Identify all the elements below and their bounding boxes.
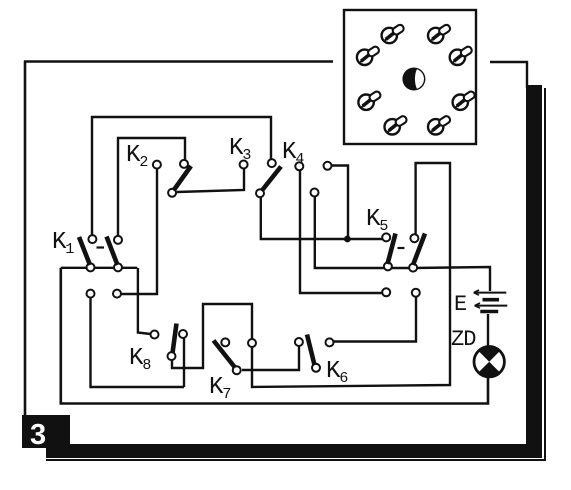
K5 contacts top row: [382, 233, 390, 241]
wire K8 right contact down to low rail: [183, 338, 185, 387]
wire K2 left contact down to lower contact row: [121, 169, 157, 294]
K1 link dash: [97, 246, 105, 248]
K1 contacts bottom row: [87, 290, 95, 298]
wire K7 pivot right then up to K6 left contact: [242, 346, 299, 370]
lamp ZD: [474, 346, 504, 377]
wire K1 top-right up and over to K2 right contact: [118, 138, 185, 236]
K5 contacts bottom row: [382, 288, 390, 296]
key 4 mid-right: [450, 45, 473, 65]
K2 right contact: [180, 160, 188, 168]
K1 contacts top row: [88, 235, 96, 243]
switch K2: [126, 142, 191, 197]
wire K1 top-left up and over to K4 left contact: [92, 117, 271, 235]
K2 pivot: [168, 189, 176, 197]
frame shadow thin outline bottom: [46, 459, 546, 461]
key 6 low-right: [453, 90, 476, 110]
frame top edge / wire to panel left terminal: [24, 60, 333, 63]
wire K1 right pivot corner down to K8 left contact: [138, 268, 151, 334]
K4 lower contact: [311, 189, 319, 197]
K3 contact: [240, 161, 248, 169]
switch K8: [129, 324, 187, 375]
K6 left contact: [295, 338, 303, 346]
wire K2 pivot to K3 contact: [177, 169, 244, 192]
panel center indicator disc: [402, 68, 425, 91]
frame shadow bottom bar: [46, 444, 542, 458]
K4 left contact: [268, 159, 276, 167]
K5 lever right: [413, 234, 425, 266]
K6 lever end: [312, 364, 320, 372]
K4 right contact: [324, 162, 332, 170]
K2 left contact: [153, 161, 161, 169]
wire low rail left to K1 bottom-left contact: [91, 298, 185, 387]
key 3 mid-left: [357, 45, 380, 65]
switch K5 (double pole): [366, 206, 425, 297]
wire panel right to shadow bar: [490, 62, 527, 88]
K4 middle contact: [295, 162, 303, 170]
svg-text:3: 3: [30, 419, 46, 451]
switch K6: [295, 335, 349, 388]
K2 lever: [174, 166, 192, 191]
switch K7: [209, 338, 256, 403]
K5 pivots: [384, 262, 392, 270]
switch K3 contact: [229, 135, 251, 169]
K5 link dash: [398, 247, 405, 249]
K7 lever: [214, 341, 236, 368]
switch K4: [256, 139, 332, 197]
key 5 low-left: [358, 90, 381, 110]
svg-text:ZD: ZD: [451, 327, 476, 352]
key 8 bottom-right: [428, 115, 451, 135]
wire K1 pivot bar: [61, 267, 138, 269]
K8 left contact: [151, 331, 159, 339]
K6 lever: [307, 335, 315, 366]
wire K6 right contact right then up to K5 bottom-right contact: [334, 297, 416, 342]
wire contact x314 down, right through K5 pivots to battery top: [315, 197, 490, 291]
wire contact x327 right then down to junction: [331, 166, 348, 239]
frame left edge: [24, 61, 27, 416]
switch K1 (double pole): [52, 229, 122, 298]
junction dot: [344, 236, 351, 243]
panel box: [344, 10, 476, 144]
K1 pivots: [87, 263, 95, 271]
key 7 bottom-left: [385, 115, 408, 135]
wire K1 pivots down left and along bottom to lamp: [61, 268, 488, 404]
K1 lever right: [107, 237, 118, 266]
wire battery bottom to lamp top: [487, 314, 489, 347]
wire K4 pivot down then right to K5 top-left contact: [261, 197, 382, 239]
figure number box: [22, 415, 70, 448]
K7 left contact: [221, 338, 229, 346]
K4 pivot: [256, 189, 264, 197]
frame shadow thin outline right: [544, 88, 546, 461]
wire K7 loop box: [172, 304, 252, 368]
K1 lever left: [79, 237, 90, 265]
battery E plates: [474, 290, 508, 312]
frame shadow right bar: [526, 85, 542, 458]
K6 right contact: [326, 338, 334, 346]
wire K5 top-right contact up, right, down right side, along bottom to K7 right contact riser: [252, 163, 450, 387]
K7 right contact: [248, 339, 256, 347]
key 2 top-right: [428, 24, 451, 44]
K5 lever left: [388, 234, 396, 265]
key 1 top-left: [382, 24, 405, 44]
K8 pivot: [168, 352, 176, 360]
K8 right contact: [179, 330, 187, 338]
wire K4 right contact down then right to K5 bottom-left contact: [300, 171, 382, 293]
K8 lever: [173, 324, 177, 354]
svg-text:E: E: [454, 292, 467, 317]
K7 pivot: [233, 366, 241, 374]
K4 lever: [262, 167, 282, 192]
